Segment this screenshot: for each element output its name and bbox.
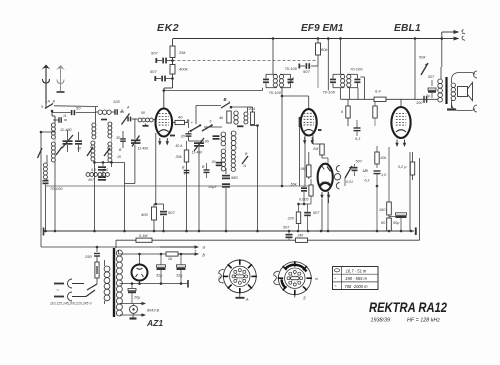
wire varcap leg	[198, 160, 200, 231]
label 6k	[341, 110, 344, 114]
svg-text:0,1M: 0,1M	[139, 234, 148, 238]
coil IF2 primary	[341, 75, 345, 88]
node cathode split	[155, 203, 158, 206]
label 507 screen	[303, 69, 310, 74]
label 11-490 C	[138, 147, 149, 151]
capacitor 50 mixer	[127, 117, 137, 122]
ground lamp	[130, 315, 137, 319]
svg-text:70-100: 70-100	[285, 66, 298, 71]
coil osc B low	[231, 151, 235, 172]
capacitor B3	[182, 166, 189, 177]
svg-text:50k: 50k	[419, 55, 426, 60]
label 400k	[179, 67, 189, 72]
label 50u	[393, 221, 400, 225]
table frequency box	[333, 267, 379, 290]
svg-text:708 -2000 m: 708 -2000 m	[345, 284, 369, 289]
wire ground rail y231	[44, 230, 414, 232]
capacitor 100	[424, 96, 427, 103]
antenna main	[42, 65, 51, 105]
svg-text:EF9 EM1: EF9 EM1	[301, 23, 344, 34]
label UB	[363, 168, 370, 183]
arrow a	[160, 245, 206, 250]
capacitor IF2 primary	[330, 79, 336, 84]
table row2 text	[345, 276, 367, 281]
label 507 pot	[428, 75, 435, 79]
svg-text:A: A	[126, 106, 130, 110]
speaker magnet	[458, 87, 468, 97]
svg-text:198 - 585 m: 198 - 585 m	[345, 276, 367, 281]
capacitor 250 mains	[84, 247, 100, 262]
svg-text:20 A: 20 A	[248, 107, 256, 111]
wire heater rail	[120, 283, 189, 285]
transformer output core	[445, 77, 447, 104]
switch osc sel	[187, 118, 213, 132]
svg-text:11-490: 11-490	[192, 151, 203, 155]
socket diagram 3	[274, 261, 318, 300]
wire lamp loop bottom	[120, 313, 146, 317]
wire left column vertical	[40, 132, 42, 247]
resistor 80	[387, 215, 392, 231]
node top rail junction x318	[317, 37, 320, 40]
label 30+95	[199, 140, 210, 144]
resistor 40 anode	[172, 120, 189, 124]
resistor 320	[296, 204, 300, 231]
node em junction	[297, 203, 311, 206]
node bias junction 2	[171, 77, 174, 80]
node leg2	[93, 230, 96, 233]
coil osc A mid	[221, 132, 226, 146]
capacitor 70-100 left	[43, 180, 49, 184]
label 507 em	[313, 211, 320, 215]
capacitor B2	[202, 163, 210, 178]
svg-text:5M: 5M	[301, 167, 307, 171]
resistor right det	[373, 99, 377, 126]
wire cap mid stem	[102, 162, 104, 176]
svg-text:B: B	[187, 118, 190, 123]
coil left wave trap	[43, 163, 47, 179]
wire outer rail left corner	[115, 240, 117, 248]
svg-text:AZ1: AZ1	[146, 318, 163, 328]
fuse	[95, 262, 99, 284]
label 160	[379, 208, 386, 212]
wire osc top link	[204, 126, 222, 128]
svg-text:6,3: 6,3	[365, 179, 370, 183]
svg-text:32μ: 32μ	[176, 274, 183, 278]
capacitor 507 lower	[155, 76, 172, 82]
label eye target circle	[334, 174, 340, 180]
label 40	[178, 115, 183, 120]
label EK2	[157, 22, 179, 34]
svg-text:16,7 - 51 m: 16,7 - 51 m	[346, 269, 367, 274]
svg-text:2M: 2M	[312, 147, 319, 151]
svg-text:250: 250	[84, 254, 92, 259]
svg-text:507: 507	[168, 210, 175, 215]
label 50 mixer	[141, 111, 145, 115]
label 70-100 left	[50, 186, 63, 191]
label 507 lower	[150, 69, 157, 74]
resistor 0.1M	[136, 238, 152, 242]
label 120	[113, 99, 120, 104]
wire EK2 cathode drop	[155, 133, 157, 204]
resistor osc right box	[251, 112, 255, 125]
label 0.005	[299, 198, 309, 202]
socket diagram A	[219, 259, 257, 302]
title REKTRA RA12	[369, 299, 447, 315]
transformer primary coil	[97, 260, 110, 304]
node cathode rail dots	[388, 230, 403, 233]
svg-text:A: A	[245, 297, 249, 302]
capacitor 32u first	[157, 253, 166, 285]
resistor 2M horizontal	[296, 234, 308, 243]
arrow EM1 leg 2	[327, 192, 330, 199]
label 20u heater	[133, 296, 141, 300]
capacitor 580 bottom	[98, 176, 106, 180]
coil RF secondary	[91, 141, 95, 167]
wire RF column	[95, 107, 96, 170]
resistor 6k det	[346, 99, 350, 126]
label 320	[288, 217, 295, 221]
wire EK2 anode entry	[262, 88, 264, 91]
capacitor EF9 right dash	[318, 129, 322, 131]
electrode EF9 left bar	[299, 117, 301, 186]
wire outer right vertical	[419, 158, 421, 240]
label 70-100 IF1 top	[285, 66, 298, 71]
resistor 25k	[170, 46, 175, 58]
wire AF line y98	[341, 98, 439, 100]
coil antenna secondary	[51, 142, 55, 167]
wire EK2 bias riser	[164, 39, 173, 89]
svg-text:0,005: 0,005	[299, 198, 309, 202]
resistor 0.2u grid	[410, 152, 414, 180]
tube EBL1	[391, 107, 410, 147]
arrow EM1 leg 1	[320, 192, 323, 199]
svg-text:400: 400	[141, 212, 148, 217]
wire speaker vert	[441, 37, 444, 67]
wire EK2 top cap	[163, 89, 166, 108]
label 11-490 A	[60, 128, 72, 132]
label 11 padder	[63, 114, 67, 118]
label 70-100 IF2 top	[350, 67, 363, 72]
svg-text:40: 40	[178, 115, 183, 120]
label 580	[231, 175, 238, 180]
svg-text:8043 B: 8043 B	[147, 309, 160, 313]
capacitor trimmer 30 A	[75, 132, 82, 152]
table row1 text	[346, 269, 367, 274]
wire coil bottom bus	[93, 161, 124, 164]
capacitor 507 em	[304, 204, 311, 231]
resistor 80k	[316, 39, 321, 67]
svg-text:320: 320	[288, 217, 295, 221]
switch band 1	[56, 147, 62, 155]
wire right vertical x410	[409, 152, 411, 231]
svg-text:HF = 128 kHz: HF = 128 kHz	[407, 318, 440, 324]
label 507 cathode	[168, 210, 175, 215]
svg-text:50 A: 50 A	[176, 144, 184, 148]
wire IF2 top feed	[340, 39, 342, 75]
label 2M	[312, 147, 319, 151]
switch band 3	[104, 148, 110, 156]
label EBL1	[394, 23, 421, 34]
label 30 A	[77, 147, 82, 151]
switch pot 0.01	[345, 166, 352, 186]
node osc leg	[185, 230, 227, 233]
svg-text:507: 507	[313, 211, 320, 215]
table row1 symbol	[334, 269, 339, 272]
bracket eye top	[336, 166, 339, 172]
label 6.0 b	[103, 168, 108, 172]
tube EF9	[301, 109, 317, 144]
node left tap	[40, 131, 43, 134]
wire wavetrap link	[44, 155, 47, 232]
svg-text:11: 11	[243, 164, 247, 168]
svg-text:120: 120	[113, 99, 120, 104]
capacitor 1.0	[374, 171, 381, 186]
wire output arrow top a	[454, 30, 466, 35]
svg-text:2M: 2M	[297, 234, 304, 238]
svg-text:≈: ≈	[334, 277, 336, 281]
svg-text:100: 100	[416, 101, 423, 105]
node a-line cap junction	[96, 246, 99, 249]
wire coil bus drop	[123, 162, 126, 232]
ground feedback coil dash	[101, 119, 107, 121]
capacitor IF1 primary	[263, 79, 269, 84]
svg-text:30+95: 30+95	[199, 140, 210, 144]
wire IF1 to EF9 grid	[281, 88, 309, 188]
svg-text:EBL1: EBL1	[394, 23, 421, 34]
table row3 text	[345, 284, 369, 289]
variable capacitor 11-490 C	[125, 119, 141, 184]
node cathode rail	[153, 230, 165, 233]
capacitor bottom mid	[98, 166, 106, 170]
label 10u3	[208, 185, 217, 189]
wire IF1 frame left	[266, 74, 277, 87]
wire top-right riser	[442, 32, 455, 39]
wire AZ1 anode lead	[139, 254, 141, 265]
coil IF1 primary	[273, 75, 277, 88]
capacitor 120 top	[111, 109, 124, 115]
wire a-line bottom	[41, 246, 160, 248]
svg-text:507: 507	[150, 69, 157, 74]
svg-text:507: 507	[151, 51, 158, 56]
mains plug prong 1	[54, 279, 84, 288]
label 2k	[167, 256, 173, 261]
svg-text:580: 580	[231, 175, 238, 180]
node b rail start	[138, 253, 141, 256]
wire IF2 frame right	[347, 74, 357, 87]
coil osc A low	[221, 149, 225, 171]
potentiometer 50k	[421, 63, 428, 75]
label 4k	[219, 115, 224, 120]
switch left column	[38, 148, 43, 158]
capacitor 30 osc2	[212, 160, 223, 166]
label 80k	[321, 47, 328, 52]
capacitor 50u	[389, 213, 407, 231]
rectifier AZ1	[132, 265, 148, 281]
wire det column	[376, 185, 379, 233]
svg-text:507: 507	[303, 69, 310, 74]
svg-text:10μ3: 10μ3	[208, 185, 217, 189]
resistor 400 cathode	[152, 204, 157, 231]
svg-text:0,2 μ: 0,2 μ	[398, 165, 407, 169]
wire EK2 anode drop	[164, 88, 173, 91]
capacitor 30 mixer	[181, 131, 200, 141]
switch mains selector 1	[87, 284, 97, 290]
label 30k	[176, 155, 183, 159]
capacitor 507 ub	[352, 160, 363, 177]
resistor 5M	[307, 152, 311, 179]
svg-text:50μ: 50μ	[393, 221, 400, 225]
resistor 2M	[313, 135, 324, 158]
coil grid link	[138, 118, 156, 122]
svg-text:1,0: 1,0	[381, 173, 387, 177]
resistor 0.005	[309, 179, 313, 204]
capacitor 507 upper	[156, 58, 172, 64]
coil osc right small	[244, 112, 248, 124]
label 70-100 IF2 bottom	[323, 90, 336, 95]
svg-text:2μ: 2μ	[425, 94, 430, 98]
wire 2M to EM1 column	[322, 158, 329, 232]
wire B+ top rail	[173, 38, 442, 40]
label 50	[76, 106, 81, 111]
lamp dial	[130, 304, 138, 316]
wire lamp loop top	[120, 302, 146, 306]
svg-text:160: 160	[379, 208, 386, 212]
switch mains selector 2	[86, 290, 95, 297]
tube EM1	[318, 164, 333, 191]
bracket eye bottom	[336, 183, 339, 189]
wire outer rail y240	[116, 239, 420, 241]
label 20 A	[248, 107, 256, 111]
resistor 2k	[166, 252, 206, 258]
wire left RF legs	[55, 162, 112, 231]
svg-text:50: 50	[141, 111, 145, 115]
svg-text:400k: 400k	[179, 67, 189, 72]
coil antenna primary	[51, 123, 55, 139]
wire secondary top tap	[119, 250, 120, 254]
resistor 160	[387, 202, 392, 215]
node leg1	[54, 230, 57, 233]
coil osc grid	[108, 122, 112, 138]
label 32u first	[156, 274, 163, 278]
svg-text:~: ~	[56, 288, 59, 294]
label 2u	[425, 94, 430, 98]
capacitor 50k em	[291, 183, 308, 205]
coil RF primary	[92, 115, 96, 139]
label mains voltages	[50, 302, 92, 306]
resistor 30k	[184, 141, 188, 231]
wire EBL1 cathode leg	[388, 147, 390, 202]
label 50A	[176, 144, 184, 148]
coil osc B mid	[231, 131, 236, 150]
wire antenna coil axis	[54, 123, 56, 162]
capacitor 30+95	[213, 135, 220, 139]
svg-text:407: 407	[88, 178, 95, 182]
svg-text:10: 10	[117, 155, 121, 159]
capacitor 32u second	[177, 253, 186, 285]
svg-text:32μ: 32μ	[156, 274, 163, 278]
svg-text:6,4: 6,4	[375, 89, 381, 94]
capacitor 50 series	[52, 110, 96, 115]
label 10k	[380, 156, 387, 160]
capacitor 6.3 det	[354, 120, 361, 136]
ground rail left terminal	[43, 228, 45, 236]
resistor 400k	[170, 65, 175, 75]
wire IF2 bottom legs	[341, 88, 359, 100]
svg-text:70-100: 70-100	[50, 186, 63, 191]
heater rail terminal	[187, 280, 189, 288]
label 25k	[178, 50, 186, 55]
svg-text:3: 3	[303, 296, 306, 301]
node top rail junction x273	[272, 37, 275, 40]
node top rail junction x415	[414, 37, 417, 40]
node top rail junction x340	[327, 37, 342, 40]
label EF9 EM1	[301, 23, 344, 34]
svg-text:70-100: 70-100	[350, 67, 363, 72]
ground EK2 left	[143, 124, 149, 126]
wire AVC line y58	[173, 60, 319, 62]
wire IF1 top feed	[272, 39, 274, 75]
antenna aux	[56, 65, 65, 92]
coil IF1 secondary	[279, 75, 283, 88]
wire coil tap to left rail	[41, 131, 55, 133]
svg-text:6.0: 6.0	[91, 168, 96, 172]
svg-text:6: 6	[210, 120, 212, 124]
label 407	[88, 178, 95, 182]
coil osc A top	[234, 111, 238, 124]
svg-text:507: 507	[283, 226, 290, 230]
svg-text:11-490: 11-490	[60, 128, 72, 132]
svg-text:1938/39: 1938/39	[371, 318, 391, 324]
label 6.0 a	[91, 168, 96, 172]
resistor 10k	[375, 146, 379, 168]
speaker frame	[452, 71, 478, 112]
capacitor 507 cathode	[156, 204, 167, 231]
svg-text:B: B	[224, 97, 227, 102]
svg-text:EK2: EK2	[157, 22, 179, 34]
variable capacitor 11-490 A	[62, 130, 73, 152]
label 11-490 B	[192, 151, 203, 155]
label 6.3 det	[355, 137, 361, 141]
capacitor padder 11	[53, 117, 67, 123]
node rail dots mid	[288, 230, 323, 233]
svg-text:11-490: 11-490	[138, 147, 149, 151]
wire osc top right link	[231, 107, 253, 112]
wire osc coil axes	[111, 122, 113, 142]
label A B switch	[41, 100, 56, 110]
svg-text:6.0: 6.0	[103, 168, 108, 172]
transformer output primary	[438, 67, 443, 102]
wire EM1 legs	[322, 199, 329, 231]
label plus b	[194, 249, 197, 254]
capacitor 580	[222, 175, 230, 179]
label 80	[381, 221, 386, 225]
label 30 osc	[116, 136, 121, 140]
wire IF2 right avc	[360, 77, 364, 99]
transformer core	[113, 248, 115, 317]
label mains tilde	[56, 288, 59, 294]
svg-text:11: 11	[63, 114, 67, 118]
label 100	[416, 101, 423, 105]
capacitor IF1 secondary	[288, 78, 294, 85]
capacitor 10u3	[222, 183, 230, 187]
ground speaker	[447, 103, 456, 110]
transformer secondary winding	[116, 250, 122, 316]
mains plug prong 2	[54, 292, 86, 301]
coil osc sec	[108, 142, 112, 167]
label 400 cathode	[141, 212, 148, 217]
resistor 4k	[227, 111, 231, 123]
wire EK2 anode line y90	[164, 90, 263, 92]
